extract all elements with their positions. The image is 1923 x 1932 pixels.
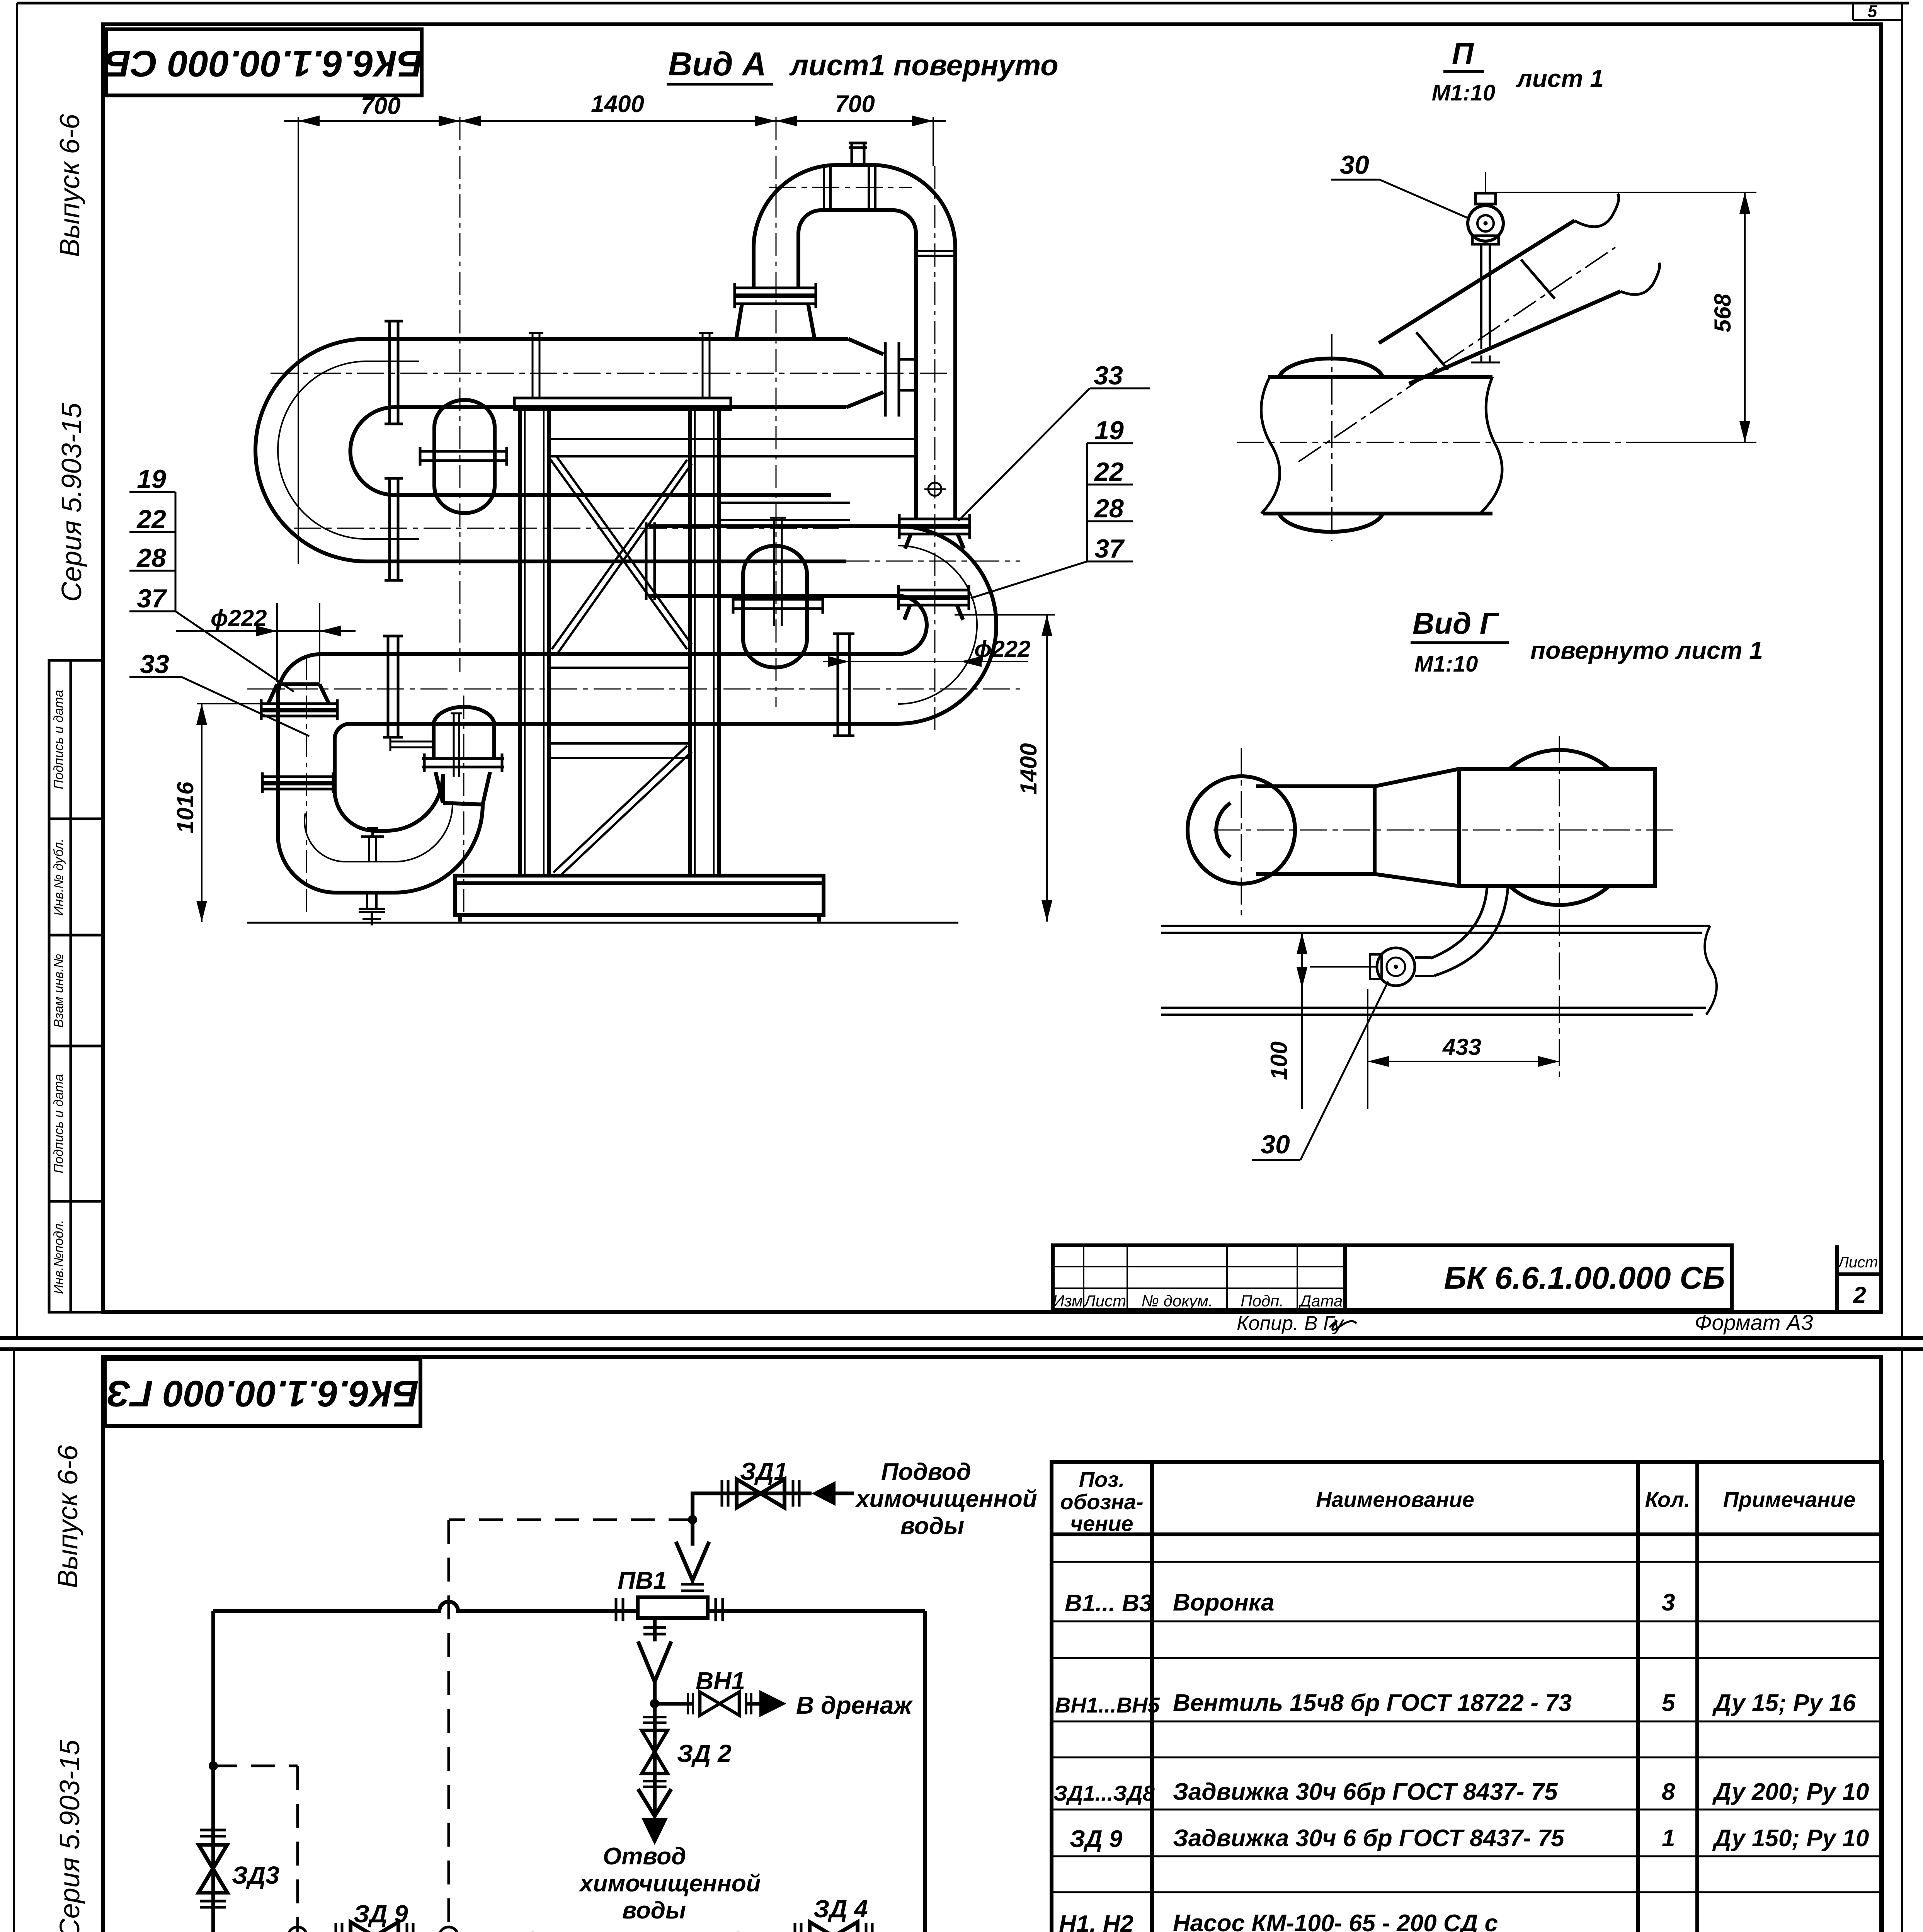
svg-text:ЗД3: ЗД3 [232, 1861, 279, 1889]
svg-text:ЗД1: ЗД1 [740, 1458, 788, 1485]
svg-text:БК 6.6.1.00.000 СБ: БК 6.6.1.00.000 СБ [1444, 1260, 1725, 1296]
heat exchanger 1 left U-bend [255, 339, 419, 561]
heat exchanger 1 upper tube A [419, 339, 883, 407]
support frame column 1 [514, 398, 731, 876]
node manifold left [209, 1932, 218, 1932]
suction U-pipe [278, 774, 483, 893]
gate valve ЗД1 [722, 1479, 799, 1508]
svg-text:М1:10: М1:10 [1414, 651, 1478, 677]
dashed line from node to left [449, 1519, 693, 1521]
svg-text:воды: воды [622, 1897, 686, 1924]
dim 1016 [197, 704, 263, 922]
tube A end flange [885, 342, 916, 417]
wire ПВ1 drain down [653, 1618, 657, 1816]
gate valve ЗД3 [199, 1830, 227, 1907]
flange 33 on downcomer [899, 514, 970, 539]
inlet arrow [812, 1481, 836, 1506]
wire to ВН1 [655, 1702, 692, 1706]
svg-text:30: 30 [1261, 1130, 1290, 1159]
svg-text:химочищенной: химочищенной [579, 1870, 761, 1897]
svg-text:Серия 5.903-15: Серия 5.903-15 [54, 1740, 85, 1932]
Вид Г channel beam [1161, 926, 1717, 1015]
svg-text:1400: 1400 [1016, 743, 1041, 794]
svg-text:обозна-: обозна- [1060, 1490, 1143, 1514]
mid flange on left pipe [262, 772, 333, 793]
heat exchanger 2 right U-bend [898, 526, 996, 724]
svg-text:повернуто лист 1: повернуто лист 1 [1530, 636, 1763, 664]
node manifold В1 branch [528, 1932, 537, 1932]
svg-text:19: 19 [1094, 416, 1124, 445]
centerline tube A [271, 373, 951, 374]
svg-text:Вид А: Вид А [668, 46, 766, 83]
Вид Г drain pipe curve [1431, 887, 1508, 976]
svg-text:Лист: Лист [1837, 1254, 1878, 1271]
detail П saddle bumps [1279, 359, 1383, 532]
svg-text:Поз.: Поз. [1079, 1467, 1125, 1492]
svg-text:№ докум.: № докум. [1141, 1292, 1213, 1310]
gate valve ЗД9 [336, 1922, 413, 1932]
node drain junction [650, 1699, 659, 1708]
gate valve ЗД2 [642, 1717, 668, 1787]
wire ЗД1 branch [693, 1493, 812, 1546]
svg-text:8: 8 [1662, 1779, 1675, 1805]
svg-text:28: 28 [136, 543, 166, 573]
svg-text:Подп.: Подп. [1241, 1292, 1284, 1310]
centerline suction pipe vertical [306, 657, 307, 916]
svg-text:БК6.6.1.00.000 ГЗ: БК6.6.1.00.000 ГЗ [107, 1373, 419, 1414]
svg-text:Выпуск 6-6: Выпуск 6-6 [54, 114, 85, 257]
centerline tube B [294, 528, 839, 529]
dim 433 [1368, 989, 1559, 1109]
svg-text:5: 5 [1662, 1690, 1676, 1716]
sheet 1 outer border [17, 3, 1909, 1338]
suction chamber cone [436, 772, 490, 804]
svg-text:33: 33 [140, 650, 169, 679]
svg-text:Ду 15; Ру 16: Ду 15; Ру 16 [1712, 1690, 1856, 1716]
detail П inclined pipe [1379, 194, 1659, 384]
stamp box БК6.6.1.00.000 СБ (rotated 180) [106, 29, 422, 95]
stamp box БК6.6.1.00.000 ГЗ [105, 1359, 420, 1426]
node manifold pump branch [733, 1932, 743, 1932]
dashed downpipe В2 branch [448, 1520, 450, 1932]
chamber dome on exchanger 2 [743, 546, 807, 668]
wire left downpipe [211, 1611, 215, 1932]
svg-text:ВН1: ВН1 [696, 1667, 745, 1695]
mid tie beam [549, 653, 690, 668]
dim 1400 right [955, 615, 1055, 922]
svg-text:Выпуск 6-6: Выпуск 6-6 [53, 1445, 83, 1588]
dim 100 [1302, 933, 1376, 1109]
svg-text:Подпись и дата: Подпись и дата [51, 690, 66, 789]
svg-text:Отвод: Отвод [603, 1843, 686, 1870]
svg-text:ЗД 9: ЗД 9 [1070, 1826, 1123, 1852]
svg-text:Вид Г: Вид Г [1412, 606, 1499, 640]
svg-text:М1:10: М1:10 [1432, 80, 1495, 105]
node junction dashed start [688, 1515, 697, 1524]
Вид Г rear circle arcs [1509, 750, 1609, 905]
Вид Г pump body [1188, 769, 1655, 886]
diagonal lower bay [553, 746, 692, 876]
beam right of column2 [719, 503, 850, 520]
node dashed branch [209, 1761, 218, 1770]
svg-text:Н1. Н2: Н1. Н2 [1059, 1911, 1133, 1932]
valve ВН1 [688, 1692, 751, 1716]
position labels right 19 22 28 37 [971, 443, 1133, 598]
Вид Г centerlines [1213, 736, 1673, 1082]
dome flange stick horizontal [420, 447, 507, 466]
svg-text:Дата: Дата [1298, 1292, 1343, 1310]
svg-text:ВН1...ВН5: ВН1...ВН5 [1055, 1693, 1160, 1717]
wire main line to ПВ1 [213, 1602, 925, 1611]
svg-text:ПВ1: ПВ1 [618, 1566, 667, 1594]
support frame column 2 [690, 410, 719, 876]
svg-text:Задвижка 30ч 6бр ГОСТ 8437- 7: Задвижка 30ч 6бр ГОСТ 8437- 75 [1173, 1779, 1558, 1805]
svg-text:Инв.№подл.: Инв.№подл. [51, 1220, 66, 1294]
ground line [247, 922, 958, 924]
wire ПВ1 right corner down [923, 1611, 927, 1932]
svg-text:Насос КМ-100- 65 - 200 СД с: Насос КМ-100- 65 - 200 СД с [1173, 1910, 1498, 1932]
pipe elbow assembly top right [754, 165, 955, 519]
svg-text:19: 19 [137, 464, 166, 494]
skirt below flange 33 [905, 534, 964, 549]
rod through suction dome [451, 713, 462, 777]
dashed branch to ВН2 [213, 1765, 298, 1767]
svg-text:Изм: Изм [1053, 1292, 1083, 1310]
elbow seams [824, 166, 955, 256]
suction chamber flange [422, 753, 504, 772]
svg-text:ЗД1...ЗД8: ЗД1...ЗД8 [1053, 1781, 1155, 1805]
drain arrow down ЗД2 [642, 1818, 668, 1845]
sheet 2 outer border [14, 1349, 1909, 1932]
position label 33 left [129, 676, 182, 678]
svg-text:568: 568 [1710, 293, 1736, 332]
elbow top stub [849, 143, 867, 165]
svg-text:чение: чение [1070, 1511, 1133, 1536]
flange stick through tube D left [383, 636, 403, 737]
sheet 2 inner frame [103, 1357, 1881, 1932]
valve 30 on Вид Г [1370, 948, 1435, 986]
svg-text:Примечание: Примечание [1723, 1487, 1856, 1512]
svg-text:3: 3 [1662, 1589, 1675, 1616]
svg-text:Наименование: Наименование [1316, 1487, 1474, 1512]
sheet 1 inner frame [103, 24, 1881, 1312]
funnel into ПВ1 [676, 1542, 709, 1580]
svg-text:Лист: Лист [1083, 1292, 1126, 1310]
inclined pipe seams [1416, 260, 1555, 370]
svg-text:ϕ222: ϕ222 [974, 636, 1031, 662]
dim 568 [1496, 192, 1756, 442]
page number box 5 [1853, 3, 1902, 20]
suction elbow assembly: tube D extension [278, 654, 363, 835]
drain arrow ВН1 [746, 1702, 759, 1706]
flange 33 suction [261, 699, 337, 720]
heat exchanger 2 tube D [363, 654, 898, 724]
small vent on header [361, 828, 384, 862]
svg-text:Серия 5.903-15: Серия 5.903-15 [56, 403, 87, 602]
svg-text:Воронка: Воронка [1173, 1589, 1275, 1616]
svg-text:ЗД 9: ЗД 9 [354, 1900, 408, 1928]
svg-text:Ду 200; Ру 10: Ду 200; Ру 10 [1712, 1779, 1869, 1805]
svg-text:100: 100 [1266, 1041, 1292, 1080]
centerline suction dome vertical [463, 696, 465, 916]
svg-text:Ду 150; Ру 10: Ду 150; Ру 10 [1712, 1825, 1869, 1852]
heater ПВ1 [638, 1597, 708, 1618]
svg-text:ЗД 4: ЗД 4 [813, 1895, 868, 1923]
svg-text:Взам инв.№: Взам инв.№ [51, 954, 66, 1027]
svg-text:Задвижка 30ч 6 бр ГОСТ 8437-: Задвижка 30ч 6 бр ГОСТ 8437- 75 [1173, 1825, 1565, 1852]
heat exchanger 1 return tube B [419, 495, 846, 561]
centerline extensions (dash-dot) [460, 117, 935, 734]
tube C left flange [646, 522, 655, 600]
svg-text:Инв.№ дубл.: Инв.№ дубл. [51, 838, 66, 916]
inner wall thin line of U-pipe [305, 804, 453, 862]
X brace upper bay [551, 456, 692, 654]
centerline tube C [626, 561, 1020, 562]
svg-text:700: 700 [361, 93, 400, 119]
parts table [1052, 1462, 1882, 1932]
svg-text:Вентиль 15ч8 бр ГОСТ 18722 -: Вентиль 15ч8 бр ГОСТ 18722 - 73 [1173, 1690, 1572, 1716]
left boxes column sheet1 [49, 660, 103, 1312]
hanger rod column2 top [699, 333, 713, 399]
svg-text:П: П [1452, 36, 1474, 70]
svg-text:химочищенной: химочищенной [855, 1486, 1037, 1512]
dome2 flange stick horizontal [733, 595, 823, 614]
vent boss on downcomer [928, 483, 941, 496]
position label 33 right [1090, 388, 1150, 389]
rod through dome2 [770, 518, 786, 626]
svg-text:В1... В3: В1... В3 [1065, 1590, 1152, 1617]
label Подвод химочищенной воды [855, 1459, 1037, 1539]
funnel below ПВ1 [638, 1641, 671, 1682]
svg-text:ЗД 2: ЗД 2 [677, 1740, 732, 1767]
dimension 700-1400-700 top [284, 117, 946, 564]
svg-text:1016: 1016 [172, 782, 198, 833]
sheet divider [0, 1336, 1923, 1340]
skirt below flange 37 [904, 605, 963, 620]
gate valve ЗД4 [795, 1922, 872, 1932]
svg-text:лист1 повернуто: лист1 повернуто [789, 49, 1059, 82]
svg-text:22: 22 [136, 505, 166, 534]
svg-text:37: 37 [137, 584, 167, 613]
elbow left leg flange [735, 283, 816, 308]
svg-text:28: 28 [1094, 494, 1124, 523]
svg-text:Подпись и дата: Подпись и дата [51, 1074, 66, 1173]
base frame [455, 876, 824, 922]
svg-text:Кол.: Кол. [1645, 1487, 1690, 1512]
svg-text:37: 37 [1094, 534, 1125, 563]
flange stick through tube A x1018 [385, 321, 403, 424]
centerline tube D [247, 689, 1020, 690]
hanger rod column1 top [529, 333, 543, 399]
heat exchanger 2 tube C [649, 526, 900, 596]
svg-text:1400: 1400 [591, 91, 644, 117]
valve 30 on detail П [1468, 172, 1503, 362]
svg-text:БК6.6.1.00.000 СБ: БК6.6.1.00.000 СБ [105, 43, 424, 84]
reducer below left leg flange [736, 304, 815, 339]
flange stick through tube D x2183 [833, 634, 854, 736]
flange 37 lower [899, 585, 969, 610]
svg-text:1: 1 [1662, 1825, 1675, 1852]
lower tie beam [549, 743, 690, 758]
suction chamber dome [434, 707, 494, 759]
drain fitting bottom [359, 893, 385, 925]
chamber dome on exchanger 1 [434, 400, 495, 513]
nozzle trapezoid on elbow top [268, 684, 329, 704]
svg-text:Подвод: Подвод [881, 1459, 971, 1485]
svg-text:Копир. В Гу: Копир. В Гу [1237, 1312, 1344, 1335]
position labels left 19 22 28 37 [129, 492, 294, 692]
svg-text:30: 30 [1340, 150, 1369, 180]
thin pipe from dome to elbow [390, 738, 434, 751]
detail П centerlines [1237, 247, 1731, 541]
svg-text:воды: воды [900, 1513, 964, 1539]
svg-text:700: 700 [835, 91, 875, 117]
sheet1 title block bottom right [1053, 1245, 1881, 1312]
elbow centerline [769, 187, 912, 188]
svg-text:2: 2 [1853, 1282, 1866, 1308]
ПВ1 flanges [616, 1598, 723, 1621]
svg-text:33: 33 [1094, 361, 1123, 390]
detail П big pipe [1261, 377, 1502, 514]
svg-text:Формат А3: Формат А3 [1695, 1310, 1813, 1335]
flange stick through tube B x1018 [385, 478, 403, 580]
svg-text:В дренаж: В дренаж [796, 1691, 913, 1719]
svg-text:22: 22 [1094, 457, 1124, 486]
svg-text:5: 5 [1868, 2, 1877, 21]
upper tie beam [549, 439, 916, 456]
label Отвод химочищенной воды [579, 1843, 761, 1924]
svg-text:лист 1: лист 1 [1516, 65, 1604, 92]
svg-text:433: 433 [1442, 1034, 1481, 1060]
funnel below ЗД2 [638, 1789, 671, 1816]
